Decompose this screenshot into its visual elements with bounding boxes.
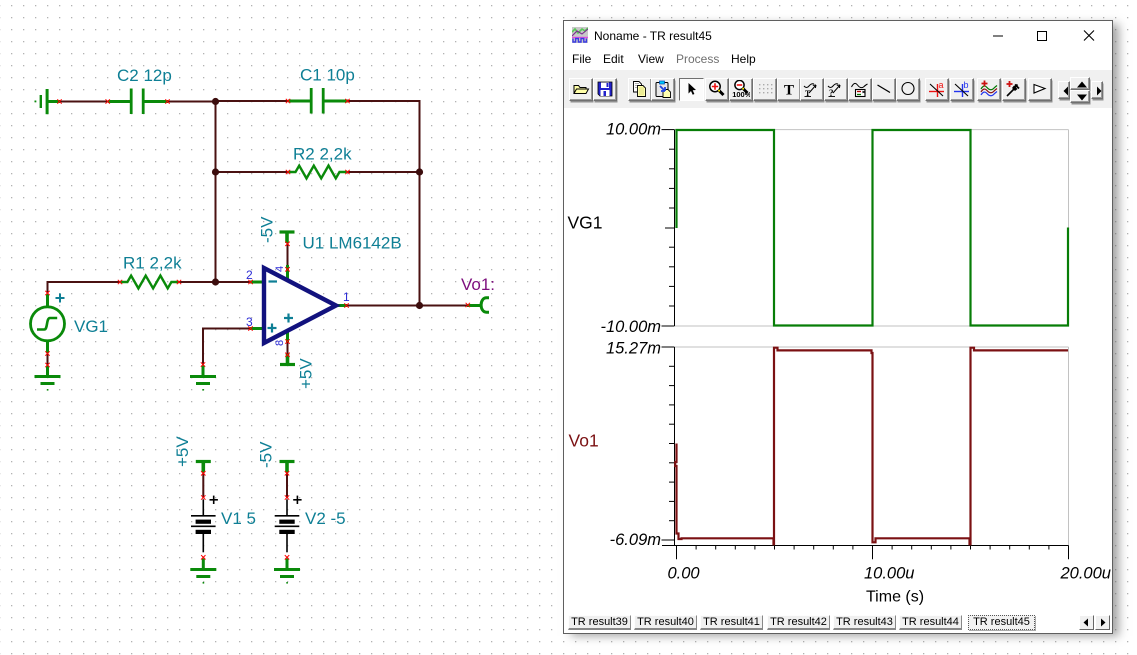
toolbar button grid (disabled) [753,78,777,101]
toolbar button text [777,78,801,101]
chart2 x-axis [662,546,1069,560]
toolbar button probe [1002,78,1026,101]
wire VG1 bottom to ground [47,353,49,366]
wire node A to C1 [215,100,289,102]
tab TR result39 [568,615,631,630]
toolbar nav left [1058,81,1070,99]
chart2 plot frame [675,347,1069,546]
tab nav right button [1095,615,1110,630]
svg-text:Time (s): Time (s) [866,589,924,606]
toolbar button line [872,78,896,101]
chart1 plot frame [675,130,1069,326]
svg-text:b: b [964,80,969,90]
svg-text:VG1: VG1 [74,317,108,336]
tab nav left button [1079,615,1094,630]
svg-text:V2 -5: V2 -5 [305,509,346,528]
svg-text:C1 10p: C1 10p [300,66,355,85]
toolbar button annotate curve ? [824,78,848,101]
svg-text:20.00u: 20.00u [1060,565,1111,583]
tab TR result45 active [968,615,1035,630]
wire C1 to right rail corner [347,101,420,306]
toolbar button marker [1028,78,1052,101]
ground at op-amp pin 3 [190,366,216,391]
wire +5V rail to battery V1 [202,473,204,498]
close button [1083,21,1097,47]
svg-text:U1 LM6142B: U1 LM6142B [303,234,402,253]
wire C2 to node A [167,101,216,103]
svg-text:-5V: -5V [257,441,276,468]
wire input terminal to C2 [59,101,109,103]
ground below V1 [190,559,216,584]
toolbar button cursor b [950,78,974,101]
svg-text:-6.09m: -6.09m [610,531,661,549]
wire ground to op-amp pin 3 [203,329,251,365]
maximize button [1036,21,1050,47]
ground below VG1 [35,366,61,391]
window icon [572,27,588,43]
toolbar button cursor a [925,78,949,101]
svg-text:V1 5: V1 5 [221,509,256,528]
toolbar button paste [651,78,675,101]
svg-text:T: T [784,83,794,99]
+5V power tbar below op-amp [280,354,295,365]
toolbar nav up [1070,77,1090,90]
tab TR result40 [634,615,697,630]
toolbar button zoom in [705,78,729,101]
wire -5V rail to battery V2 [286,473,288,498]
svg-text:10.00m: 10.00m [606,121,661,139]
capacitor C1 [288,88,348,114]
svg-text:+5V: +5V [297,358,316,389]
svg-text:VG1: VG1 [568,213,603,233]
tab TR result44 [899,615,962,630]
svg-text:8: 8 [274,340,286,346]
toolbar button annotate curve T [800,78,824,101]
junction node E [212,278,219,285]
wire op-amp output to node C and output terminal [346,305,468,307]
toolbar button copy [628,78,652,101]
svg-text:a: a [939,80,944,90]
svg-text:C2 12p: C2 12p [117,66,172,85]
op-amp U1 LM6142B [250,265,347,343]
wire node D to R2 left [216,171,290,173]
battery V2 [275,496,302,553]
svg-text:Vo1:: Vo1: [461,275,495,294]
toolbar button legend [848,78,872,101]
svg-text:-5V: -5V [258,216,277,243]
toolbar button save [593,78,617,101]
wire VG1 up to R1 [48,282,121,293]
resistor R2 [288,166,348,179]
output terminal Vo1 [467,298,489,312]
toolbar button open [569,78,593,101]
svg-text:100%: 100% [732,90,750,98]
minimize button [992,21,1006,47]
voltage generator VG1 [31,294,65,353]
wire -5V rail to op-amp pin 4 [287,244,289,270]
toolbar nav right [1091,81,1103,99]
toolbar button add curves [977,78,1001,101]
+5V tbar above V1 [196,462,211,473]
svg-text:-10.00m: -10.00m [600,318,661,336]
connection x marks [45,99,470,560]
tab TR result42 [767,615,830,630]
junction node B [416,168,423,175]
plus mark at VG1 [56,294,65,303]
tab TR result43 [833,615,896,630]
VG1 square wave trace [677,130,1069,326]
battery V1 [191,496,218,553]
toolbar button circle [896,78,920,101]
resistor R1 [120,276,179,289]
svg-text:R1 2,2k: R1 2,2k [123,254,182,273]
svg-text:R2 2,2k: R2 2,2k [293,145,352,164]
input terminal [35,89,61,114]
wire op-amp pin 8 to +5V rail [287,341,289,355]
-5V tbar above V2 [280,462,295,473]
junction node D [212,168,219,175]
svg-text:Vo1: Vo1 [569,431,599,451]
Vo1 square wave trace [675,348,1068,545]
capacitor C2 [108,89,168,115]
svg-text:4: 4 [274,266,286,272]
-5V power tbar above op-amp [280,232,295,243]
chart1 y-axis [662,130,675,326]
svg-text:1: 1 [343,290,350,304]
chart2 y-axis [662,347,675,546]
svg-text:+5V: +5V [173,436,192,467]
wire left rail node A down to node E [215,102,217,283]
wire R1 right to node E and op-amp pin 2 [179,281,251,283]
svg-text:15.27m: 15.27m [606,340,661,358]
toolbar button zoom 100% [729,78,753,101]
tab TR result41 [700,615,763,630]
junction node A [212,98,219,105]
svg-text:10.00u: 10.00u [864,565,914,583]
junction node C [416,302,423,309]
wire R2 right to node B [347,171,420,173]
toolbar nav down [1070,90,1090,103]
ground below V2 [274,559,300,584]
toolbar button select arrow (pressed) [679,78,704,101]
svg-text:0.00: 0.00 [668,565,701,583]
